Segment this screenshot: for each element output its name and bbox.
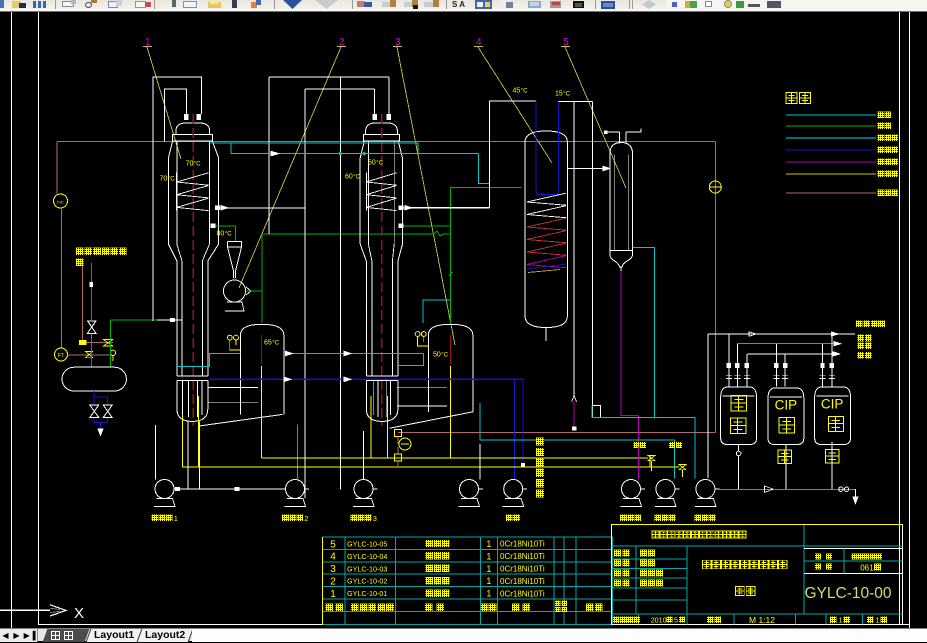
blowdown valve 1: [90, 405, 99, 418]
parts header: [326, 604, 334, 612]
svg-text:°C: °C: [194, 162, 201, 168]
magenta drop to feed pump: [637, 447, 639, 480]
svg-text:0Cr18Ni10Ti: 0Cr18Ni10Ti: [500, 552, 545, 561]
svg-text:2010: 2010: [651, 615, 667, 624]
svg-text:1: 1: [839, 616, 843, 625]
evaporator 1 centerline: [192, 114, 194, 426]
valve on steam branch: [79, 340, 86, 345]
brown pipe to drum valves: [68, 354, 111, 356]
svg-text:70: 70: [186, 161, 194, 168]
separator 1 instruments: [227, 335, 232, 340]
legend line: [786, 173, 876, 175]
cooling water U tube: [536, 101, 559, 194]
label drain: [858, 352, 865, 359]
evaporator bulb: [177, 375, 208, 377]
circulation pump: [224, 280, 246, 302]
viewport edge left: [11, 12, 13, 628]
evaporator 2 dome: [366, 123, 398, 135]
svg-text:X: X: [74, 605, 84, 622]
leader line 3: [397, 47, 455, 345]
legend line: [786, 192, 876, 194]
evaporator 1 nozzles: [184, 114, 189, 120]
evaporator bulb: [366, 375, 398, 377]
svg-text:°C: °C: [353, 175, 360, 181]
separator 2 instruments: [415, 332, 420, 337]
cooling water riser B: [592, 102, 594, 406]
svg-text:60: 60: [345, 174, 353, 181]
evaporator 1 flange: [172, 135, 212, 142]
svg-text:061: 061: [860, 564, 874, 573]
condenser drain: [545, 328, 547, 342]
sheet border right inner: [899, 12, 901, 625]
vapor line to second effect: [220, 207, 305, 209]
svg-text:3: 3: [373, 514, 377, 523]
bulb internals E1: [182, 381, 184, 416]
tank shell: [768, 388, 804, 445]
wash main 1 valve and drop: [648, 456, 655, 461]
svg-text:4: 4: [330, 552, 336, 563]
svg-text:50: 50: [368, 160, 376, 167]
evaporator 1 steam bleed nozzle: [211, 224, 216, 229]
svg-text:1: 1: [876, 616, 880, 625]
crossover pipe B: [305, 88, 375, 90]
svg-text:80: 80: [217, 231, 225, 238]
sheet border left: [37, 12, 39, 625]
separator 2 bottom slant: [390, 412, 473, 428]
evaporator 2 flange: [364, 135, 400, 142]
svg-text:GYLC-10-04: GYLC-10-04: [347, 552, 387, 561]
svg-text:1: 1: [486, 551, 491, 561]
preheater shell: [610, 143, 633, 268]
evaporator 2 centerline: [381, 114, 383, 426]
separator 2 centerline: [450, 335, 452, 364]
bottom row texts: [613, 616, 620, 623]
wash main 2 valve and drop: [679, 465, 686, 470]
svg-text:FT: FT: [58, 353, 64, 359]
flow arrow on product line: [271, 151, 279, 156]
tank bottom lines: [738, 444, 740, 451]
vapor line E2: [404, 207, 490, 209]
svg-text:15: 15: [555, 91, 563, 98]
control valve station: [394, 429, 401, 436]
legend line: [786, 125, 876, 127]
leader line 5: [565, 47, 626, 188]
separator 1 bottom slant: [198, 414, 282, 426]
evaporator 1 vapor nozzle: [215, 206, 220, 211]
product line from E1 dome: [210, 143, 479, 154]
wash pipes in bulb: [181, 396, 183, 467]
service line drain: [748, 353, 841, 355]
separator 1 wash liquid drop: [260, 366, 262, 458]
blowdown valve 2: [103, 405, 112, 418]
tank shell: [815, 387, 851, 445]
label water in: [858, 342, 865, 349]
evaporator 1 top piping rectangle: [153, 77, 202, 321]
service line water: [737, 343, 841, 345]
service line alkali: [708, 333, 855, 335]
separator 2 wash drop: [450, 366, 452, 458]
vacuum group box: [593, 406, 601, 418]
control line right drop: [714, 141, 716, 432]
svg-text:2: 2: [330, 577, 336, 588]
pipe riser A: [268, 77, 270, 234]
svg-text:GYLC-10-02: GYLC-10-02: [347, 577, 387, 586]
svg-text:0Cr18Ni10Ti: 0Cr18Ni10Ti: [500, 589, 545, 598]
svg-text:2: 2: [304, 514, 308, 523]
green tick: [449, 272, 453, 276]
wash pipes in bulb: [370, 396, 372, 458]
drawing title line 1: [703, 560, 712, 569]
svg-text:1: 1: [330, 589, 336, 600]
leader line 1: [147, 47, 181, 159]
title block staff rows: [614, 550, 621, 557]
green return line: [111, 319, 157, 321]
svg-text:3: 3: [330, 564, 336, 575]
pipe riser C: [339, 77, 341, 489]
label boiler steam supply: [76, 248, 84, 256]
separator 1 recirculation to E1: [177, 354, 241, 367]
control line left drop: [56, 141, 58, 194]
green header to separator 1: [261, 234, 263, 323]
pump at x=665.4: [656, 480, 675, 499]
svg-text:70: 70: [160, 176, 168, 183]
svg-text:GYLC-10-03: GYLC-10-03: [347, 564, 387, 573]
bulb internals E2: [372, 381, 374, 416]
pipe riser B: [304, 89, 306, 498]
crossover pipe top: [269, 76, 389, 78]
FT instrument: [55, 348, 68, 361]
pump2 riser: [187, 421, 189, 489]
tank 1 label: [731, 396, 747, 412]
condensate main drop to pump: [514, 379, 516, 479]
cyan long feed main: [480, 403, 675, 479]
separator 1 product outlet: [284, 353, 424, 355]
svg-text:45: 45: [513, 88, 521, 95]
right cells text: [815, 553, 821, 559]
pump at x=705.4: [696, 480, 715, 499]
condenser to preheater link: [567, 168, 609, 170]
green vapor line to condenser: [451, 186, 522, 188]
evaporator 1 dome: [176, 123, 210, 135]
svg-text:FIC: FIC: [57, 200, 64, 205]
svg-text:0Cr18Ni10Ti: 0Cr18Ni10Ti: [500, 577, 545, 586]
legend line: [786, 149, 876, 151]
control line to FT: [61, 208, 63, 348]
evaporator 2 body outer: [360, 141, 366, 376]
cyan feed loop: [592, 406, 695, 479]
green steam line into drum: [90, 263, 92, 321]
green line to ejector: [216, 225, 236, 227]
svg-text:5: 5: [674, 615, 678, 624]
svg-text:CIP: CIP: [775, 398, 798, 413]
evaporator 1 heating coil: [176, 173, 178, 211]
pump1 suction: [155, 425, 157, 480]
svg-text:GYLC-10-05: GYLC-10-05: [347, 540, 387, 549]
svg-text:CIP: CIP: [821, 397, 844, 412]
title block frame: [612, 524, 903, 624]
svg-text:M 1:12: M 1:12: [749, 615, 775, 625]
svg-text:1: 1: [174, 514, 178, 523]
condensate arrow up: [573, 402, 575, 431]
svg-text:°C: °C: [521, 89, 528, 95]
label alkali: [858, 335, 865, 342]
svg-text:1: 1: [486, 589, 491, 599]
tank top pipes: [728, 334, 730, 387]
labels above pumps: [634, 442, 640, 448]
small instrument on drum inlet: [110, 350, 115, 355]
pump at x=295: [286, 480, 305, 499]
svg-text:°C: °C: [563, 92, 570, 98]
UCS icon: [0, 609, 50, 611]
connection ducts E2-S2: [397, 386, 447, 388]
pump at x=363.5: [354, 480, 373, 499]
legend line: [786, 114, 876, 116]
evaporator 2 nozzles: [372, 114, 377, 120]
separator 1 centerline: [261, 335, 263, 364]
steam valve X upper: [88, 321, 97, 334]
svg-text:°C: °C: [225, 232, 232, 238]
pump1 discharge to pump2 line: [174, 488, 180, 490]
parts list table: [323, 536, 613, 538]
svg-text:50: 50: [433, 352, 441, 359]
wash liquid main 1: [261, 457, 648, 459]
riser top link: [559, 101, 593, 103]
pump2 suction from slant: [296, 425, 298, 480]
control line lower main: [398, 432, 715, 434]
svg-text:0Cr18Ni10Ti: 0Cr18Ni10Ti: [500, 540, 545, 549]
svg-text:65: 65: [264, 340, 272, 347]
E1 bulb slant discharge: [199, 421, 201, 488]
preheater top fittings: [619, 132, 621, 143]
svg-text:°C: °C: [168, 177, 175, 183]
svg-text:0Cr18Ni10Ti: 0Cr18Ni10Ti: [500, 565, 545, 574]
evaporator 2 body inner: [368, 141, 372, 376]
sheet border right outer: [909, 12, 911, 629]
condenser shell: [525, 131, 567, 328]
evaporator 2 nozzle pipes: [388, 77, 390, 114]
svg-text:1: 1: [486, 564, 491, 574]
sheet border bottom: [38, 624, 910, 626]
ejector: [228, 242, 242, 279]
svg-text:°C: °C: [441, 353, 448, 359]
product line step: [231, 143, 479, 154]
valve on FT line: [85, 351, 92, 357]
legend line: [786, 161, 876, 163]
cooling water riser A: [573, 102, 575, 396]
product line to condenser: [479, 154, 490, 184]
toolbar: [0, 0, 927, 12]
legend line: [786, 137, 876, 139]
tank shell: [721, 387, 757, 445]
separator 2 cyan inlet: [423, 300, 451, 323]
discharge riser: [707, 334, 709, 478]
preheater internals: [613, 154, 615, 250]
green main between effects: [262, 231, 451, 236]
leader line 4: [478, 47, 552, 163]
svg-text:5: 5: [330, 539, 336, 550]
pump at x=469: [460, 480, 479, 499]
drawing title line 2: [736, 587, 745, 596]
svg-text:GYLC-10-00: GYLC-10-00: [804, 585, 891, 602]
drain arrow: [98, 429, 103, 436]
condensate main: [210, 378, 523, 380]
condensate label vertical: [536, 438, 544, 446]
evaporator 2 vapor nozzle: [399, 206, 404, 211]
pump at x=631: [622, 480, 641, 499]
layout tab bar: [0, 628, 927, 641]
preheater bottom nipple: [620, 267, 622, 271]
instrument on control line: [709, 181, 721, 193]
pump suction green: [234, 278, 236, 280]
white line from riser to evaporator: [157, 319, 182, 321]
title block top yellow edge: [612, 523, 903, 525]
wash liquid main 2: [182, 466, 679, 468]
cooling water pipe white: [408, 101, 536, 207]
evaporator 1 body inner: [177, 141, 182, 376]
condenser coil: [527, 193, 566, 202]
pump at x=513.2: [504, 480, 523, 499]
leader line 2: [239, 47, 341, 288]
drum blowdown piping: [93, 391, 95, 405]
university name: [652, 531, 659, 538]
pump at x=164.5: [155, 480, 174, 499]
control branch 2: [82, 259, 84, 340]
instrument FIC: [54, 194, 68, 208]
E2 bleed to riser: [399, 224, 404, 229]
svg-text:°C: °C: [272, 341, 279, 347]
separator 2 shell: [428, 324, 473, 412]
pump discharge green: [246, 290, 263, 292]
svg-text:GYLC-10-01: GYLC-10-01: [347, 589, 387, 598]
green riser at second effect: [450, 187, 452, 323]
evaporator 2 heating coil: [365, 173, 367, 211]
svg-text:1: 1: [486, 539, 491, 549]
label discharge to dryer: [856, 321, 863, 328]
yellow drops near pumps: [649, 456, 651, 467]
svg-text:1: 1: [486, 576, 491, 586]
preheater product out cyan: [633, 248, 655, 418]
tank bottom main: [715, 488, 855, 490]
preheater tube sheet: [610, 250, 633, 252]
legend title: [786, 93, 797, 104]
svg-text:°C: °C: [376, 161, 383, 167]
separator 1 shell: [241, 324, 284, 411]
pump4 riser: [479, 444, 481, 480]
steam drum: [62, 367, 126, 391]
connection ducts E1-S1: [208, 387, 258, 389]
preheater cooling outlet magenta: [621, 271, 639, 480]
evaporator 1 body outer: [168, 141, 177, 376]
control line main top: [57, 140, 715, 142]
pump3 riser: [363, 431, 365, 480]
